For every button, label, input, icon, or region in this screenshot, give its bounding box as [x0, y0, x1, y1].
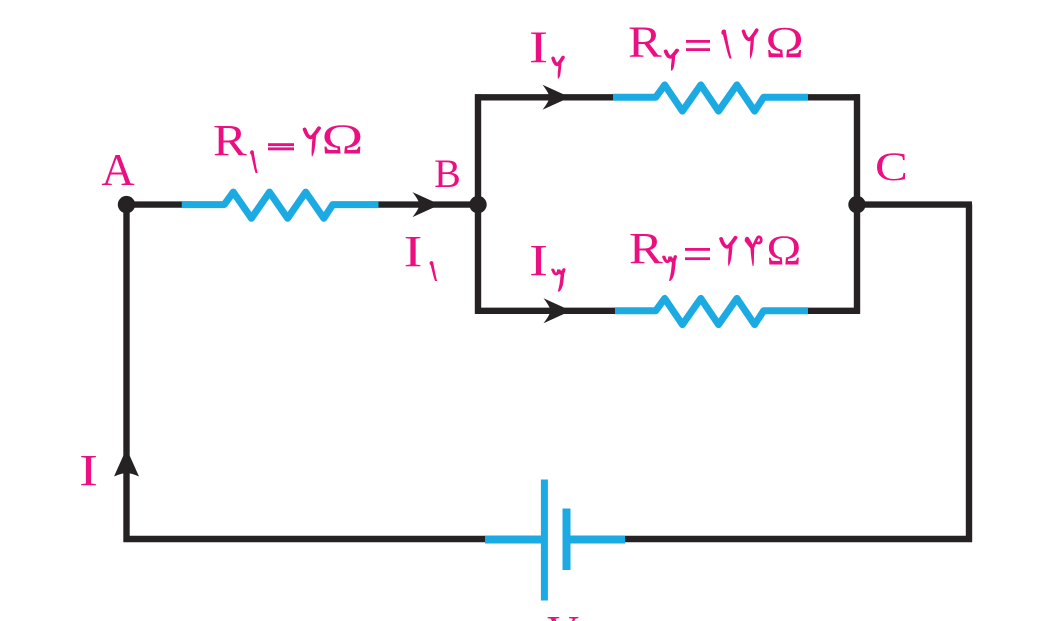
- label R2 value: [628, 18, 804, 71]
- label R1 value: [213, 116, 363, 173]
- arrow I3 on bottom branch: [544, 298, 572, 323]
- battery V right lead: [566, 536, 625, 544]
- wire A-B horizontal right part: [370, 201, 478, 207]
- label R3 value: [629, 225, 801, 281]
- svg-text:I: I: [79, 446, 98, 495]
- battery V left lead: [485, 536, 545, 544]
- svg-text:I: I: [529, 236, 548, 285]
- svg-text:I: I: [529, 23, 548, 73]
- svg-text:R: R: [629, 225, 663, 273]
- svg-text:R: R: [213, 117, 247, 165]
- wire top branch left part: [475, 94, 622, 100]
- svg-text:I: I: [404, 227, 423, 276]
- resistor R1: [182, 192, 379, 218]
- label current I3: [529, 236, 564, 292]
- battery V long plate: [541, 480, 548, 601]
- svg-text:Ω: Ω: [766, 18, 804, 67]
- wire bottom left segment: [124, 536, 489, 542]
- arrow I2 on top branch: [543, 85, 571, 110]
- wire bottom branch right part: [800, 308, 860, 314]
- label current I2: [529, 23, 563, 79]
- wire bottom branch left part: [475, 308, 622, 314]
- svg-text:B: B: [434, 151, 461, 196]
- label node B: [434, 151, 461, 196]
- node C: [848, 196, 865, 213]
- svg-text:Ω: Ω: [767, 226, 802, 274]
- svg-text:V: V: [547, 607, 579, 621]
- battery V short plate: [563, 509, 571, 571]
- svg-text:Ω: Ω: [322, 116, 364, 163]
- wire B vertical branch: [475, 94, 481, 313]
- label current I1: [404, 227, 437, 281]
- wire right side of parallel box: [854, 94, 860, 313]
- node B: [469, 196, 486, 213]
- svg-text:C: C: [875, 144, 908, 189]
- arrow I on left wire pointing up: [114, 449, 139, 477]
- wire A-B horizontal left part: [127, 201, 193, 207]
- wire C to right: [857, 201, 972, 207]
- svg-text:R: R: [628, 18, 662, 66]
- node A: [118, 196, 135, 213]
- label node A: [101, 144, 134, 195]
- label battery V: [547, 607, 579, 621]
- arrow I1 on wire A-B: [413, 192, 441, 217]
- resistor R3: [615, 298, 808, 324]
- wire right vertical: [966, 205, 972, 542]
- resistor R2: [613, 85, 808, 111]
- label node C: [875, 144, 908, 189]
- label current I: [79, 446, 98, 495]
- wire bottom right segment: [625, 536, 972, 542]
- svg-text:A: A: [101, 144, 134, 195]
- wire A down left side: [123, 205, 129, 542]
- wire top branch right part: [800, 94, 860, 100]
